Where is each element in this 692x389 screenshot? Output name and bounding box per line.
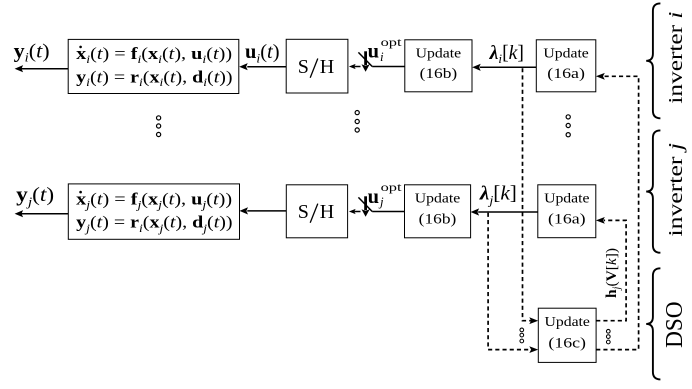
wire u_i(t) from S/H to plant i (239, 63, 286, 70)
svg-text:yi(t): yi(t) (14, 41, 50, 64)
Update (16b) box j (405, 185, 471, 238)
svg-text:DSO: DSO (661, 301, 688, 348)
dashed wire lambda_j down to 16c (488, 213, 538, 353)
node y_i(t) output label (14, 41, 50, 64)
label inverter j (665, 143, 687, 237)
plant box i (dynamics) (68, 39, 239, 93)
wire lambda_i[k] from 16a to 16b (472, 64, 536, 71)
Update (16c) box (538, 308, 596, 362)
svg-text:(16b): (16b) (420, 66, 458, 82)
svg-text:u: u (368, 186, 379, 208)
dashed wire lambda_i down to 16c (523, 68, 539, 324)
brace inverter j (646, 130, 660, 252)
label inverter i (665, 11, 687, 103)
vdots 16c outputs (606, 329, 610, 343)
svg-text:ui(t): ui(t) (245, 42, 280, 65)
svg-text:λi[k]: λi[k] (489, 43, 524, 66)
svg-text:xi(t) = fi(xi(t), ui(t)): xi(t) = fi(xi(t), ui(t)) (76, 44, 232, 66)
plant j equation line 2 (76, 213, 232, 235)
vdots 16c inputs (520, 328, 524, 343)
svg-text:λj[k]: λj[k] (479, 184, 517, 208)
svg-text:u: u (368, 41, 379, 63)
svg-text:hj(V[k]): hj(V[k]) (604, 248, 623, 298)
node u_i(t) label (245, 42, 280, 65)
dashed wire 16c to 16a j (h_j feedback) (596, 217, 626, 321)
plant j equation line 1 (76, 190, 232, 212)
svg-text:xj(t) = fj(xj(t), uj(t)): xj(t) = fj(xj(t), uj(t)) (76, 190, 232, 212)
svg-text:i: i (380, 49, 384, 64)
vdots between rows col 3 (566, 115, 570, 137)
vdots between rows col 2 (355, 111, 359, 133)
wire u_j from S/H to plant j (240, 207, 287, 214)
node u_i^opt label (368, 37, 403, 64)
svg-text:inverter j: inverter j (665, 143, 687, 237)
svg-text:Update: Update (545, 314, 590, 329)
svg-text:(16a): (16a) (548, 211, 586, 227)
svg-text:(16b): (16b) (419, 211, 457, 227)
sampler switch i (349, 51, 405, 72)
node y_j(t) output label (16, 185, 54, 209)
dashed wire 16c to 16a i (feedback) (596, 73, 639, 350)
node lambda_j[k] label (479, 184, 517, 208)
svg-text:S: S (298, 201, 309, 223)
wire lambda_j[k] from 16a to 16b (471, 208, 538, 215)
S/H box i (286, 39, 348, 93)
svg-text:S: S (298, 56, 309, 78)
svg-text:(16c): (16c) (548, 335, 586, 351)
svg-text:H: H (320, 201, 334, 223)
svg-text:Update: Update (416, 45, 461, 60)
label DSO (661, 301, 688, 348)
svg-text:yi(t) = ri(xi(t), di(t)): yi(t) = ri(xi(t), di(t)) (76, 67, 232, 89)
brace DSO (646, 268, 660, 379)
vdots between rows col 1 (157, 116, 161, 137)
brace inverter i (646, 3, 660, 118)
plant box j (dynamics) (68, 184, 239, 239)
Update (16b) box i (405, 40, 472, 92)
plant i equation line 1 (76, 44, 232, 66)
node u_j^opt label (368, 182, 403, 209)
Update (16a) box j (538, 185, 596, 238)
sampler switch j (349, 196, 405, 217)
wire y_i(t) output arrow (15, 65, 69, 72)
svg-text:Update: Update (415, 191, 460, 206)
svg-text:opt: opt (381, 37, 403, 49)
svg-text:inverter i: inverter i (665, 11, 687, 103)
S/H box j (286, 185, 347, 238)
node h_j(V[k]) label (604, 248, 623, 298)
node lambda_i[k] label (489, 43, 524, 66)
Update (16a) box i (536, 40, 596, 92)
svg-text:yj(t): yj(t) (16, 185, 54, 209)
svg-text:Update: Update (543, 45, 588, 60)
svg-text:yj(t) = ri(xj(t), dj(t)): yj(t) = ri(xj(t), dj(t)) (76, 213, 232, 235)
plant i equation line 2 (76, 67, 232, 89)
svg-text:opt: opt (381, 182, 403, 194)
svg-text:Update: Update (544, 191, 589, 206)
svg-text:(16a): (16a) (547, 66, 585, 82)
wire y_j(t) output arrow (15, 210, 69, 217)
svg-text:H: H (320, 56, 334, 78)
